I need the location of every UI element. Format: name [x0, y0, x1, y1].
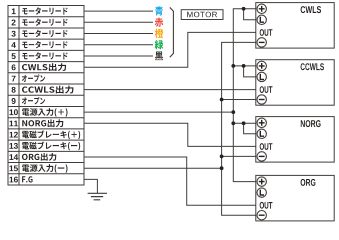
pin 15 number: [9, 165, 18, 171]
wire motor lead pin 1: [84, 10, 153, 12]
junction: [220, 98, 224, 102]
terminal plus NORG: [257, 118, 266, 127]
ground symbol: [88, 193, 107, 200]
pin 14 label ORG出力: [22, 153, 56, 161]
pin 7 number: [12, 76, 16, 82]
pin 10 number: [9, 109, 17, 115]
pin 9 label オープン: [22, 97, 45, 105]
terminal L NORG: [257, 129, 266, 138]
pin 13 label 電磁ブレーキ(ー): [22, 142, 80, 151]
pin 13 number: [9, 143, 17, 149]
pin 16 label F.G: [22, 176, 32, 182]
limit sensor block NORG: [256, 117, 334, 163]
pin 3 number: [11, 31, 15, 37]
wire power plus pin10: [84, 111, 233, 113]
pin 2 label モーターリード: [22, 18, 67, 25]
pin 11 label NORG出力: [22, 119, 63, 127]
limit sensor block ORG: [256, 175, 334, 221]
MOTOR label box: [181, 10, 223, 20]
wire CWLS output pin6: [84, 32, 256, 67]
label ORG: [301, 179, 316, 186]
pin 2 number: [12, 20, 16, 26]
junction: [220, 155, 224, 159]
lead color label 青: [155, 6, 163, 15]
wire L branch block 2: [244, 66, 258, 77]
terminal minus ORG: [257, 211, 266, 220]
wire NORG minus: [222, 155, 258, 157]
wire CCWLS output pin8: [84, 89, 256, 91]
terminal L CWLS: [257, 15, 266, 24]
OUT text CWLS: [260, 29, 273, 36]
plus bus: [233, 9, 257, 182]
pin 1 label モーターリード: [22, 7, 67, 14]
pin 14 number: [9, 154, 18, 160]
label NORG: [301, 120, 321, 127]
terminal L ORG: [257, 188, 266, 197]
wire motor lead pin 3: [84, 33, 153, 35]
junction: [242, 121, 246, 125]
terminal minus CWLS: [257, 38, 266, 47]
pin 5 number: [12, 53, 16, 59]
wire ORG output pin14: [84, 157, 256, 205]
brace grouping motor leads: [170, 7, 174, 57]
wire L branch block 1: [244, 9, 258, 20]
lead color label 赤: [155, 18, 163, 27]
wire NORG output pin11: [84, 123, 256, 146]
pin 9 number: [12, 98, 16, 104]
junction: [242, 64, 246, 68]
pin 1 number: [12, 8, 16, 14]
pin 10 label 電源入力(＋): [22, 108, 68, 117]
pin 5 label モーターリード: [22, 52, 67, 59]
terminal L CCWLS: [257, 72, 266, 81]
wire F.G pin16: [84, 179, 97, 193]
terminal plus CCWLS: [257, 61, 266, 70]
wire NORG plus: [233, 122, 257, 124]
pin 16 number: [9, 177, 17, 183]
wire CCWLS plus: [233, 65, 257, 67]
limit sensor block CWLS: [256, 3, 334, 49]
pin 4 label モーターリード: [22, 41, 67, 48]
terminal minus CCWLS: [257, 95, 266, 104]
connector pin table: [8, 6, 84, 186]
junction: [231, 110, 235, 114]
wire power minus pin15: [84, 167, 222, 169]
pin 8 label CCWLS出力: [22, 86, 73, 94]
pin 15 label 電源入力(ー): [22, 164, 68, 173]
junction: [220, 166, 224, 170]
wire motor lead pin 4: [84, 44, 153, 46]
pin 3 label モーターリード: [22, 30, 67, 37]
terminal minus NORG: [257, 152, 266, 161]
minus bus: [222, 42, 258, 215]
junction: [231, 64, 235, 68]
wire motor lead pin 2: [84, 21, 153, 23]
OUT text NORG: [260, 143, 273, 150]
terminal plus CWLS: [257, 4, 266, 13]
MOTOR text: [187, 12, 217, 18]
terminal plus ORG: [257, 177, 266, 186]
OUT text CCWLS: [260, 86, 273, 93]
OUT text ORG: [260, 202, 273, 209]
wire CCWLS minus: [222, 99, 258, 101]
pin 7 label オープン: [22, 74, 45, 82]
label CCWLS: [301, 63, 324, 70]
pin 4 number: [11, 42, 15, 48]
pin 11 number: [9, 121, 18, 127]
pin 12 number: [9, 132, 17, 138]
pin 8 number: [12, 87, 16, 93]
pin 12 label 電磁ブレーキ(＋): [22, 130, 80, 139]
limit sensor block CCWLS: [256, 60, 334, 105]
junction: [242, 7, 246, 11]
lead color label 黒: [155, 52, 163, 61]
pin 6 label CWLS出力: [22, 63, 66, 71]
wire motor lead pin 5: [84, 55, 153, 57]
label CWLS: [301, 6, 321, 13]
pin 6 number: [12, 64, 16, 70]
lead color label 緑: [155, 40, 164, 49]
junction: [231, 121, 235, 125]
lead color label 橙: [155, 29, 164, 38]
wire L branch block 3: [244, 123, 258, 134]
